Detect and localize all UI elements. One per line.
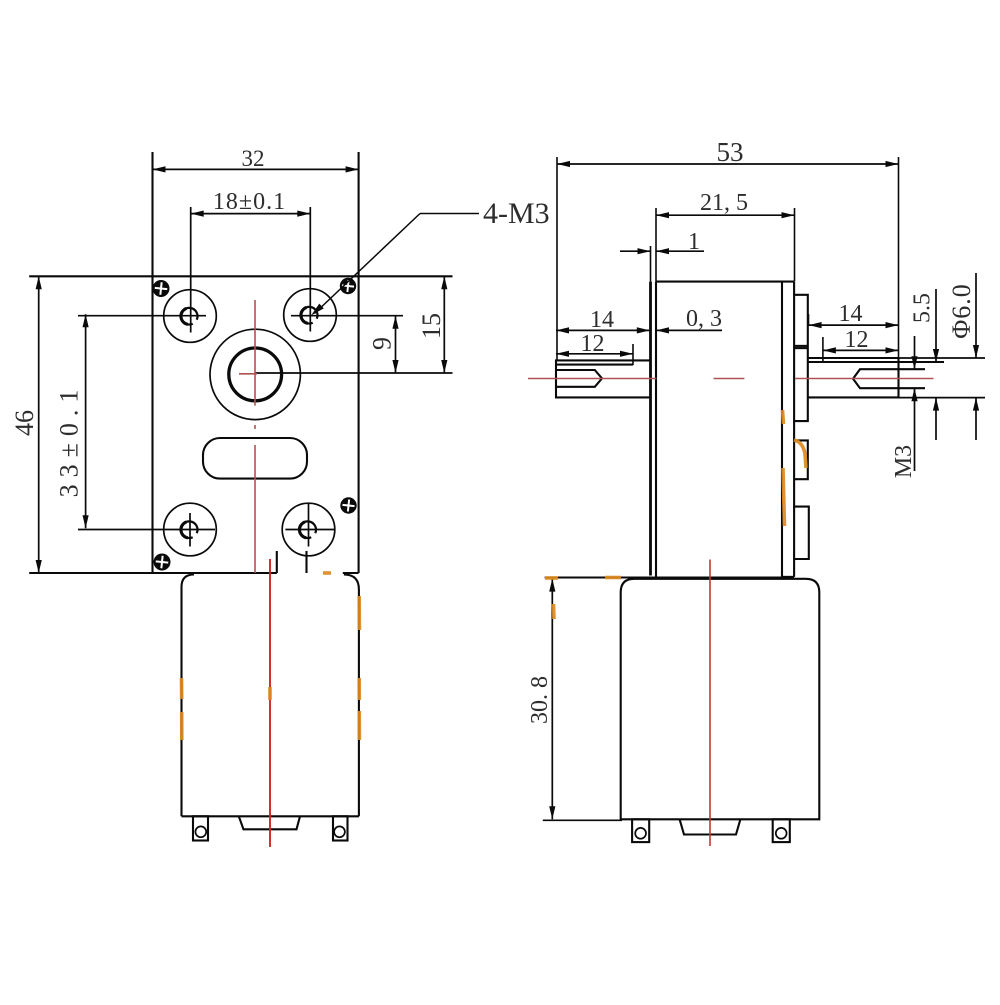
svg-text:12: 12	[581, 331, 605, 357]
worm housing stub right	[305, 551, 307, 573]
right shaft D-flat with M3 thread extension lines	[853, 369, 925, 388]
dimension 21,5 line with arrows	[656, 214, 795, 216]
worm plate extension up for 1-dim	[650, 246, 652, 282]
gearbox plate left edge (with 32-dim extension above)	[151, 152, 153, 573]
dimension M3 vertical line with outside arrows	[914, 336, 916, 369]
oval slot	[203, 438, 307, 479]
svg-text:53: 53	[717, 137, 744, 167]
red centerline motor vertical (side)	[709, 560, 711, 847]
screw hole bottom-right vertical line	[308, 504, 310, 547]
gearbox plate right edge (with 32-dim extension above)	[358, 152, 360, 573]
RIGHT VIEW GROUP	[527, 137, 985, 846]
motor terminal tab left (side)	[632, 819, 649, 842]
right shaft second line / 5.5 ext	[808, 361, 944, 363]
gearbox plate bottom edge right segment	[343, 572, 359, 574]
motor body top-right corner arc	[344, 575, 359, 590]
shaft housing block slot lines	[794, 345, 808, 347]
side bump C	[794, 507, 809, 559]
red centerline gearbox vertical	[239, 300, 257, 573]
53-dim right extension (down to shaft)	[898, 157, 900, 358]
motor terminal tab right (side)	[773, 819, 790, 842]
motor body top-left corner arc	[182, 575, 195, 588]
dimension 14 left line with arrows	[556, 329, 650, 331]
output shaft circle (thick)	[229, 348, 282, 401]
screw hole bottom-left vertical line	[189, 513, 191, 547]
svg-text:14: 14	[839, 301, 863, 327]
53-dim left extension (down to shaft)	[556, 157, 558, 360]
dimension phi6.0 vertical line with outside arrows	[975, 273, 977, 358]
svg-text:30. 8: 30. 8	[527, 676, 553, 724]
motor body (side view) outline	[621, 579, 820, 820]
dimension 33±0.1 line with arrows	[85, 314, 87, 528]
svg-text:4-M3: 4-M3	[483, 197, 550, 230]
bottom holes leader line left part / 33-ext	[78, 529, 215, 531]
svg-text:32: 32	[242, 146, 265, 171]
svg-text:21, 5: 21, 5	[700, 190, 748, 216]
svg-text:12: 12	[845, 327, 869, 353]
gearbox body left edge extension up for 1-dim and 21.5-dim	[655, 208, 657, 282]
dimension 9 line with arrows	[395, 316, 397, 373]
svg-text:1: 1	[688, 229, 700, 255]
gearbox body right edge	[781, 282, 783, 577]
motor terminal tab left hole (side)	[635, 828, 646, 839]
dimension 14 right line with arrows	[809, 324, 899, 326]
motor body right edge	[358, 590, 360, 817]
worm housing stub left	[276, 551, 278, 573]
top holes leader line y=315.7 left part / 33-ext	[78, 315, 206, 317]
screw hole top-left outer	[164, 290, 217, 343]
motor terminal tab right hole	[334, 826, 345, 837]
gearbox plate top edge with 46-ext left and 15-ext leader right	[29, 275, 452, 277]
screw hole top-right outer	[284, 289, 337, 342]
junction line gearbox/motor (30.8 top extension)	[545, 576, 794, 578]
left shaft D-flat top	[556, 370, 602, 387]
motor terminal tab left hole	[195, 826, 206, 837]
LEFT VIEW GROUP	[10, 146, 550, 847]
motor bottom connector (side)	[680, 819, 741, 834]
left shaft inner line (12mm flat region)	[556, 364, 633, 366]
side bump B	[794, 440, 808, 479]
svg-text:0, 3: 0, 3	[686, 306, 722, 332]
svg-text:5.5: 5.5	[910, 293, 936, 323]
4-M3 leader horizontal	[420, 213, 479, 215]
14 right extension	[808, 314, 810, 326]
dimension 53 line with arrows	[557, 163, 899, 165]
motor terminal tab right	[333, 816, 348, 840]
gearbox right cover plate bottom tick	[782, 576, 794, 578]
dimension 12 right line with arrows	[823, 349, 899, 351]
output shaft boss outer circle	[210, 329, 300, 419]
right shaft bottom extension to phi6 dim	[899, 397, 986, 399]
svg-text:9: 9	[368, 337, 397, 350]
svg-text:M3: M3	[891, 445, 917, 478]
screw hole top-left screw glyph	[181, 308, 198, 325]
screw hole bottom-right screw glyph	[299, 521, 316, 538]
dimension 30.8 line with arrows	[551, 579, 553, 820]
right output shaft outline	[808, 358, 899, 397]
worm plate 0.3mm (thick line)	[649, 282, 652, 576]
svg-text:33±0.1: 33±0.1	[55, 383, 84, 498]
screw hole top-right vertical line / 18-ext	[309, 207, 311, 332]
svg-text:46: 46	[10, 410, 39, 436]
corner screw top-right	[340, 278, 356, 294]
12 right extension	[822, 337, 824, 361]
red center tick on shaft	[239, 373, 257, 375]
screw hole top-right screw glyph	[301, 307, 318, 324]
watermark orange strokes	[182, 410, 807, 740]
gearbox body left edge	[655, 282, 657, 577]
21.5-dim right extension	[794, 208, 796, 282]
motor terminal tab right hole (side)	[776, 828, 787, 839]
screw hole bottom-right outer	[282, 503, 335, 556]
12 left extension	[632, 344, 634, 365]
svg-text:Φ6.0: Φ6.0	[947, 283, 976, 339]
dimension 15 line with arrows	[443, 276, 445, 373]
dimension 12 left line with arrows	[556, 353, 633, 355]
dimension 1 lines with outside arrows	[620, 250, 651, 252]
gearbox plate bottom edge left segment with 46-ext leader	[29, 572, 277, 574]
top holes leader line y=315.7 right part to 9-dim	[291, 315, 403, 317]
4-M3 leader diagonal	[315, 214, 421, 314]
screw hole bottom-left outer	[164, 503, 217, 556]
bottom holes leader line right part	[285, 529, 335, 531]
30.8 bottom extension line	[543, 819, 622, 821]
corner screw top-left	[152, 280, 169, 297]
screw hole bottom-left screw glyph	[181, 521, 198, 538]
motor bottom connector	[239, 816, 300, 829]
dimension 0,3 leader with arrow	[656, 329, 722, 331]
svg-text:18±0.1: 18±0.1	[213, 189, 286, 215]
shaft housing block right	[794, 295, 808, 421]
shaft center leader line to 9/15 dims	[255, 372, 452, 374]
motor body bottom edge	[182, 815, 359, 817]
corner screw bottom-right	[340, 497, 356, 513]
dimension 46 line with arrows	[38, 276, 40, 573]
svg-text:14: 14	[590, 307, 614, 333]
4-M3 leader arrowhead	[311, 304, 324, 316]
dimension 18±0.1 line with arrows	[191, 213, 311, 215]
motor body left edge	[180, 587, 182, 816]
right shaft top extension to phi6 dim	[899, 357, 986, 359]
gearbox body top edge	[656, 281, 795, 283]
screw hole top-left vertical line / 18-ext	[190, 207, 192, 333]
red centerline motor vertical	[269, 559, 271, 847]
gearbox right cover plate	[793, 282, 795, 577]
left output shaft outline	[556, 360, 650, 397]
svg-text:15: 15	[417, 313, 446, 339]
red horizontal shaft centerline (dashed)	[528, 378, 934, 380]
corner screw bottom-left	[153, 553, 170, 570]
dimension 5.5 vertical line with outside arrows	[935, 289, 937, 362]
dimension 32 line with arrows	[153, 168, 359, 170]
motor terminal tab left	[193, 816, 208, 840]
